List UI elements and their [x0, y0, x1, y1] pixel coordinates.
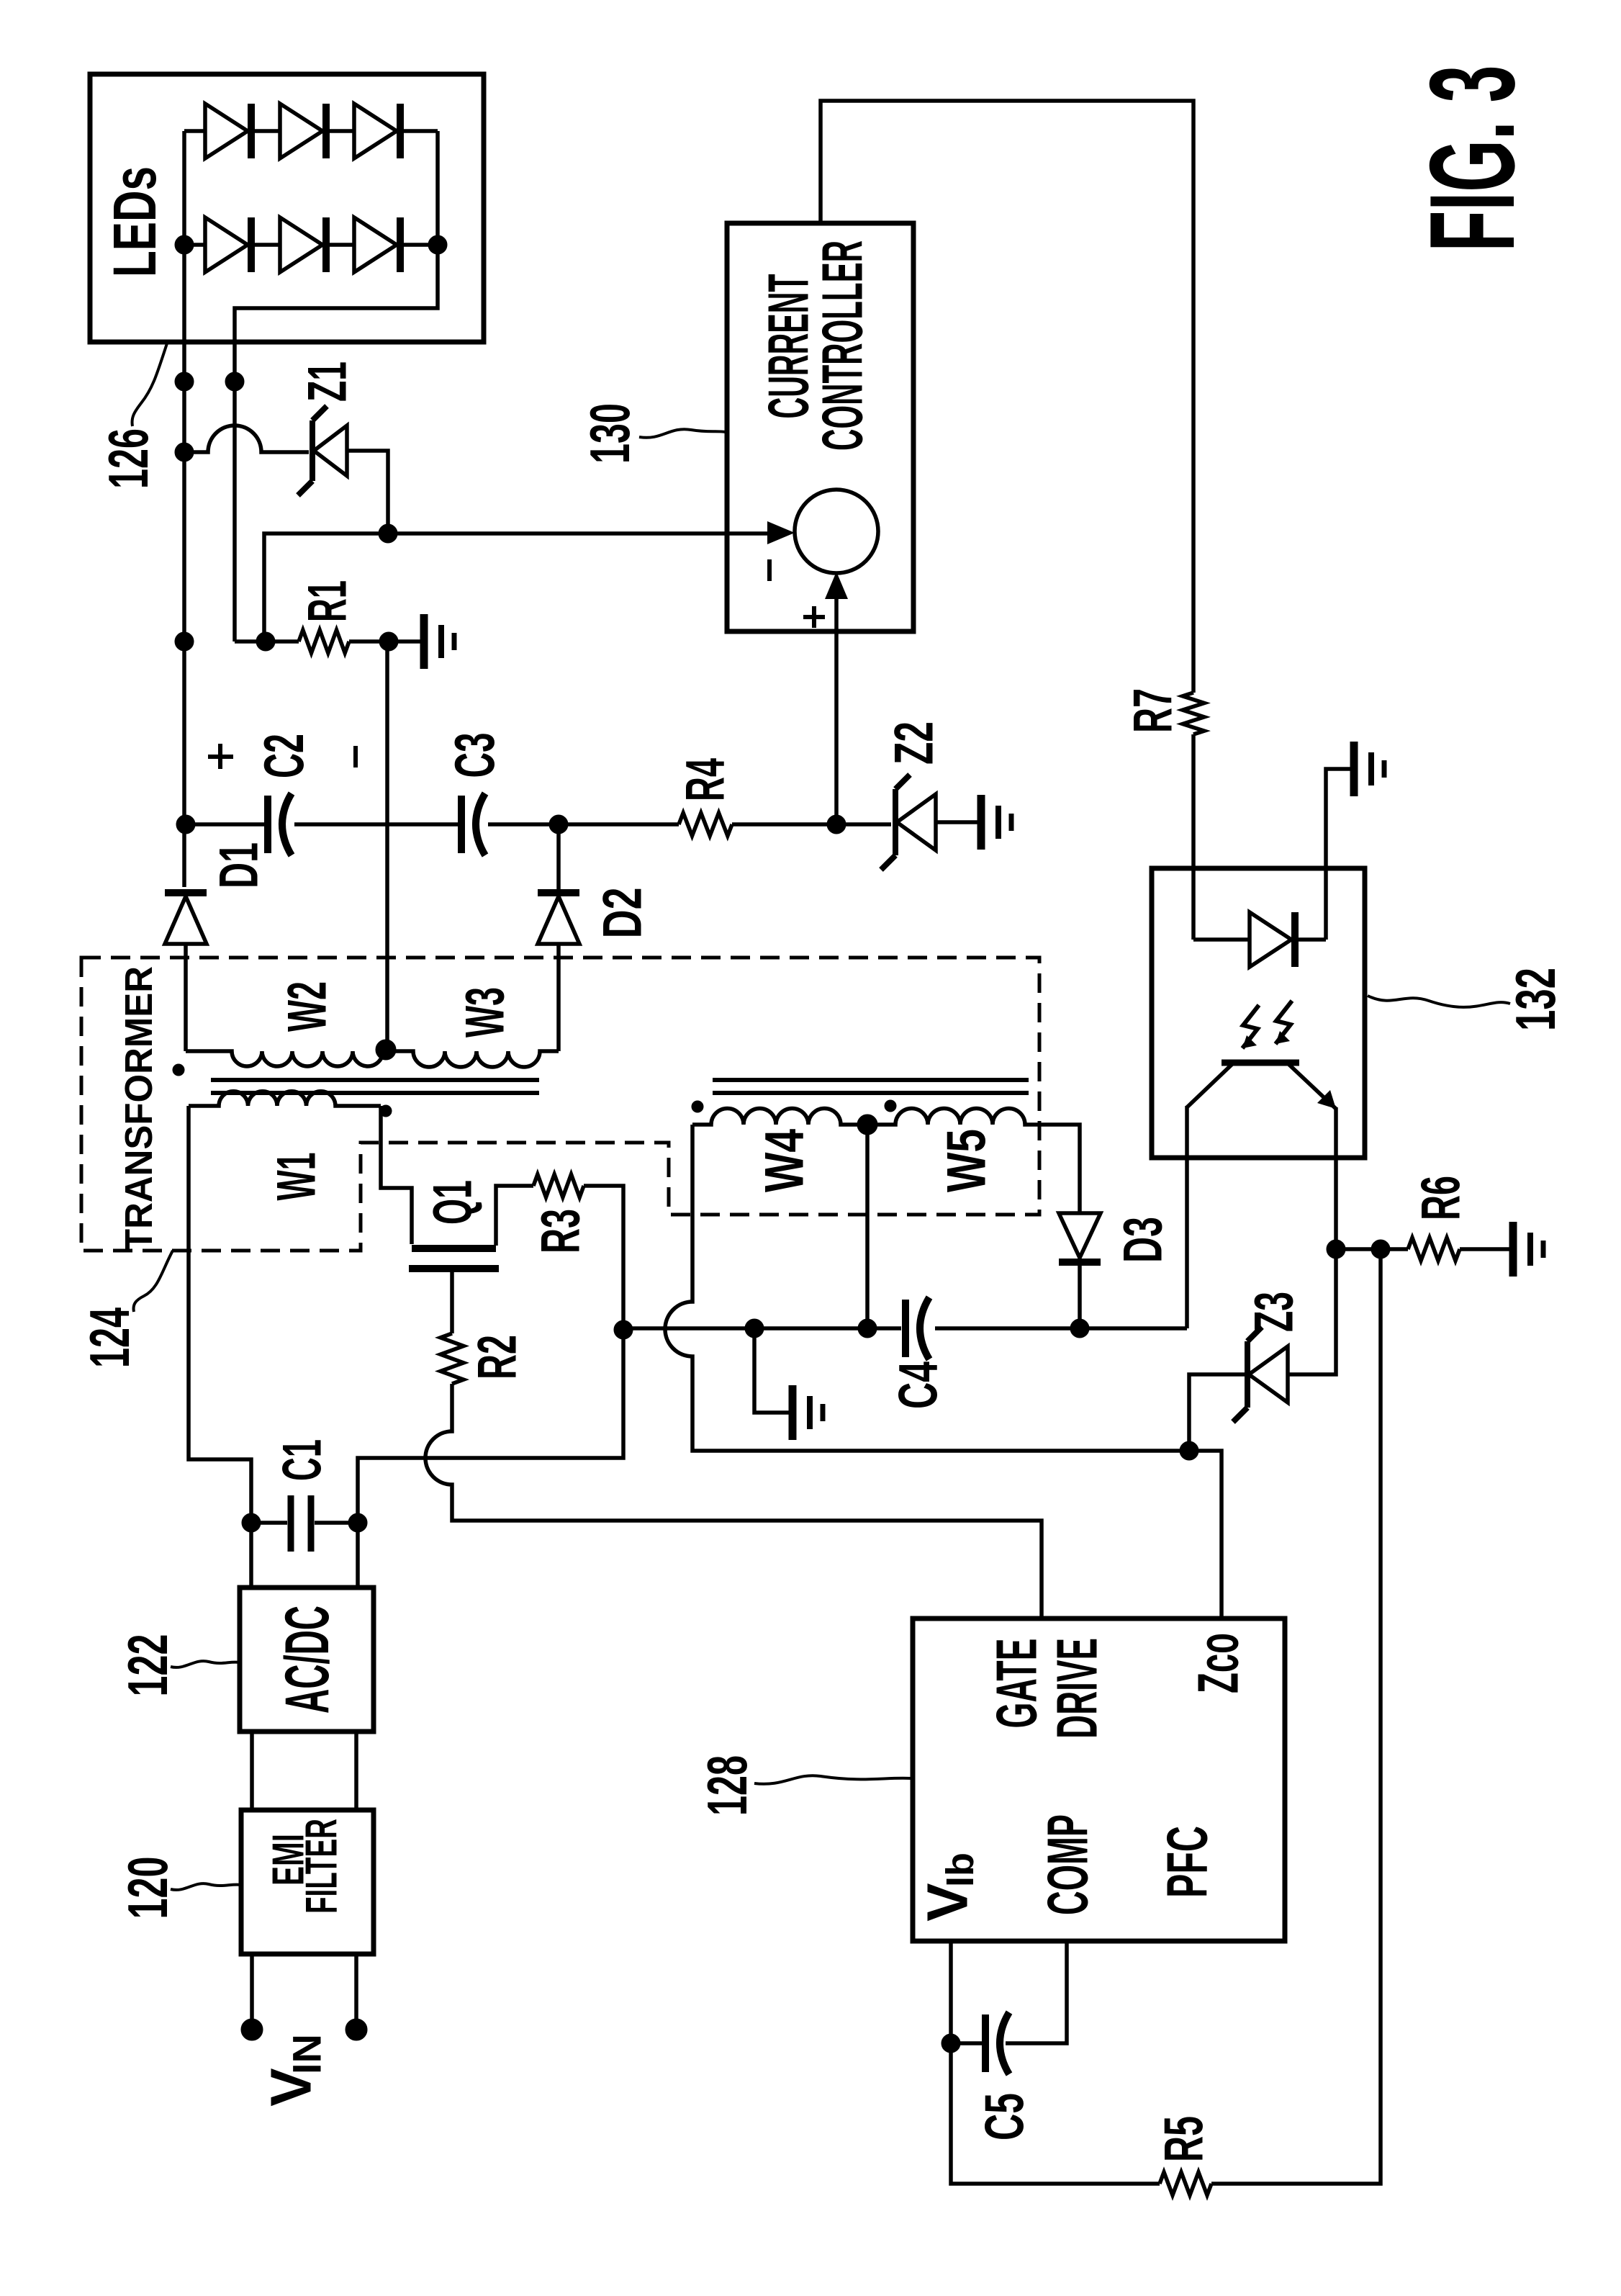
wire: C1 to AC/DC: [251, 1523, 358, 1588]
label TRANSFORMER: [117, 966, 161, 1251]
label R5: [1154, 2116, 1215, 2162]
label C4: [888, 1361, 949, 1409]
svg-text:COMP: COMP: [1036, 1814, 1100, 1915]
label Z3: [1244, 1292, 1305, 1332]
svg-text:C2: C2: [252, 734, 315, 778]
wire: C2 to C3: [294, 822, 458, 827]
svg-text:R5: R5: [1154, 2116, 1215, 2162]
svg-text:122: 122: [116, 1634, 179, 1697]
label R3: [530, 1209, 592, 1253]
wire: C1 leads: [251, 1521, 358, 1525]
LED diode D-B1: [205, 217, 251, 272]
junction R4/Z2/plus-input: [827, 815, 846, 834]
svg-text:R2: R2: [467, 1335, 528, 1379]
svg-text:132: 132: [1504, 968, 1567, 1031]
resistor R3: [533, 1174, 584, 1197]
wire: R2 lead hops sense wire, to gate-drive line: [425, 1384, 1042, 1619]
VIN terminal left: [241, 2019, 263, 2040]
opto phototransistor: [1187, 1063, 1336, 1109]
svg-text:R6: R6: [1411, 1176, 1472, 1220]
svg-text:Q1: Q1: [423, 1180, 484, 1225]
svg-text:IN: IN: [284, 2034, 330, 2074]
capacitor C4: [906, 1297, 929, 1359]
resistor R2: [441, 1333, 464, 1384]
label 122: [116, 1634, 179, 1697]
junction R1 right: [379, 632, 398, 651]
label Q1: [423, 1180, 484, 1225]
junction W2/W3 tap: [376, 1040, 396, 1060]
phase dot W4: [692, 1101, 703, 1112]
wire: C5 leads: [951, 1941, 1067, 2043]
winding W5: [867, 1109, 1026, 1125]
junction C4 ground stub: [745, 1319, 764, 1338]
svg-text:FILTER: FILTER: [297, 1819, 347, 1914]
wire: Z1 anode branch with hop over right rail: [184, 426, 309, 452]
svg-text:W3: W3: [455, 987, 516, 1037]
wire: Z2 to ground: [936, 820, 979, 824]
label Z2: [884, 721, 945, 765]
svg-text:128: 128: [695, 1755, 759, 1816]
junction at LED bottom row left: [175, 235, 194, 254]
minus input arrowhead: [767, 521, 795, 544]
label W4: [754, 1129, 816, 1192]
label minus input: [767, 559, 772, 581]
junction at Z1 branch: [175, 443, 194, 462]
svg-text:PFC: PFC: [1155, 1826, 1219, 1898]
junction on left rail at R1 level: [175, 632, 194, 651]
svg-text:DRIVE: DRIVE: [1045, 1638, 1109, 1739]
svg-text:FIG. 3: FIG. 3: [1404, 66, 1540, 252]
label 120: [116, 1857, 179, 1919]
LED diode D-B2: [280, 217, 326, 272]
wire: rail to C2: [186, 822, 264, 827]
wire: opto collector down to aux node: [1185, 1106, 1189, 1328]
svg-text:V: V: [916, 1883, 980, 1921]
wire: EMI FILTER to VIN terminals: [252, 1954, 356, 2030]
gate drive box 128: [913, 1619, 1285, 1941]
svg-text:C5: C5: [975, 2093, 1036, 2140]
plus input arrowhead: [825, 572, 848, 599]
label 124: [78, 1307, 141, 1368]
svg-text:C4: C4: [888, 1361, 949, 1409]
label C5: [975, 2093, 1036, 2140]
wire: aux rail: [623, 1326, 1187, 1331]
label +: [208, 744, 233, 769]
wire: Q1 source to R3: [496, 1186, 533, 1246]
LED diode D-B3: [354, 217, 400, 272]
summing circle: [795, 490, 878, 573]
label 120 leader: [171, 1883, 241, 1890]
svg-text:126: 126: [96, 428, 160, 489]
wire: D2 anode down to W3: [556, 944, 561, 1051]
svg-text:Z2: Z2: [884, 721, 945, 765]
label W5: [936, 1129, 998, 1192]
svg-text:GATE: GATE: [985, 1639, 1049, 1729]
label 130 leader: [639, 429, 726, 438]
label Vlb: [916, 1852, 983, 1922]
label R1: [297, 580, 358, 622]
wire: R7 to optocoupler LED: [1191, 734, 1196, 940]
label VIN: [259, 2034, 330, 2107]
wire: D2 cathode up to rail: [556, 824, 561, 889]
junction R6 node A: [1327, 1240, 1345, 1259]
svg-text:W4: W4: [754, 1129, 816, 1192]
wire: Z3 anode lead: [1189, 1374, 1247, 1451]
label 122 leader: [171, 1661, 240, 1667]
junction R6 node B: [1371, 1240, 1390, 1259]
wire: Z3 cathode up to R6 node: [1288, 1249, 1336, 1374]
wire: R3 to source node: [584, 1186, 623, 1328]
wire: R6 node: [1336, 1247, 1511, 1251]
wire: LED right vertical and return: [235, 131, 438, 641]
capacitor C3: [461, 793, 485, 855]
opto light arrows: [1242, 1001, 1292, 1048]
junction C5 left: [942, 2034, 960, 2053]
figure title FIG. 3: [1404, 66, 1540, 252]
svg-text:W1: W1: [266, 1153, 328, 1201]
capacitor C5: [985, 2012, 1009, 2074]
label 132 leader: [1368, 996, 1510, 1007]
wire: R1 to ground: [349, 639, 422, 644]
wire: plus input from R4/Z2 node: [834, 595, 839, 822]
current controller box 130: [727, 223, 913, 631]
label W2: [277, 981, 338, 1032]
phase dot W5: [885, 1100, 896, 1112]
junction at LED bottom row right: [428, 235, 447, 254]
svg-text:CONTROLLER: CONTROLLER: [810, 240, 875, 451]
diode D1: [165, 893, 207, 944]
ground at opto LED: [1354, 742, 1384, 796]
junction Zco node: [1180, 1441, 1198, 1460]
label 128 leader: [754, 1775, 911, 1784]
svg-text:124: 124: [78, 1307, 141, 1368]
junction Z1/controller-minus node: [379, 524, 397, 543]
wire: opto emitter down to R6 node: [1334, 1107, 1338, 1249]
label R4: [675, 758, 736, 801]
wire: W1 to Q1 drain: [381, 1106, 412, 1244]
svg-text:Z3: Z3: [1244, 1292, 1305, 1332]
svg-text:130: 130: [578, 403, 641, 464]
svg-text:D1: D1: [209, 842, 270, 888]
resistor R1: [299, 630, 349, 653]
wire: ground stub: [754, 1328, 790, 1413]
wire: R5 to C5/Vlb: [951, 1941, 1160, 2184]
ground at Z2: [981, 795, 1011, 850]
label minus: [353, 746, 358, 767]
wire: LED cathode rail down (left): [182, 245, 186, 887]
svg-text:D2: D2: [592, 888, 654, 939]
resistor R4: [679, 813, 732, 836]
label W3: [455, 987, 516, 1037]
wire: sense line down to W2/W3 tap: [385, 641, 389, 1049]
label AC/DC: [273, 1606, 342, 1714]
phase dot W1: [380, 1105, 392, 1117]
svg-text:AC/DC: AC/DC: [273, 1606, 342, 1714]
junction below box on left rail: [175, 372, 194, 391]
label C2: [252, 734, 315, 778]
label W1: [266, 1153, 328, 1201]
label LEDs: [101, 166, 168, 277]
AC/DC block 122: [240, 1588, 374, 1732]
svg-text:Zco: Zco: [1186, 1633, 1250, 1693]
label 126: [96, 428, 160, 489]
svg-text:R1: R1: [297, 580, 358, 622]
transformer dashed outline 124: [81, 958, 1039, 1251]
junction W4/W5 tap to aux rail: [858, 1319, 877, 1338]
junction below box on right rail: [225, 372, 244, 391]
label C3: [443, 733, 506, 778]
core lines primary: [211, 1080, 539, 1093]
wire: LED left vertical: [182, 131, 186, 245]
VIN terminal right: [346, 2019, 367, 2040]
ground at R6: [1513, 1222, 1543, 1277]
junction W4/W5 tap: [857, 1115, 877, 1135]
label GATE DRIVE: [985, 1638, 1109, 1739]
wire: LED chain top row: [184, 129, 438, 133]
diode D3: [1059, 1213, 1101, 1262]
winding W3: [386, 1051, 559, 1067]
LED diode D-A3: [354, 104, 400, 158]
wire: minus input: [388, 531, 772, 536]
wire: Zco pin: [1189, 1451, 1222, 1619]
wire: W4 left lead with hop: [665, 1125, 1189, 1451]
wire: LED chain bottom row: [184, 243, 438, 247]
label COMP: [1036, 1814, 1100, 1915]
svg-text:D3: D3: [1113, 1217, 1174, 1263]
svg-text:Ib: Ib: [939, 1852, 982, 1887]
resistor R5: [1160, 2172, 1211, 2195]
junction D3 cathode: [1070, 1319, 1089, 1338]
wire: W1 left lead down to C1: [189, 1106, 251, 1523]
junction C3/D2: [549, 815, 568, 834]
label D3: [1113, 1217, 1174, 1263]
label CURRENT CONTROLLER: [757, 240, 875, 451]
transistor Q1 MOSFET: [409, 1248, 499, 1269]
svg-text:W2: W2: [277, 981, 338, 1032]
svg-text:W5: W5: [936, 1129, 998, 1192]
label EMI FILTER: [264, 1819, 347, 1914]
label R6: [1411, 1176, 1472, 1220]
svg-text:120: 120: [116, 1857, 179, 1919]
wire: controller output to R7: [821, 101, 1193, 693]
wire: source node down and left to C1 plus: [358, 1328, 623, 1523]
wire: R5 feedback line: [1211, 1249, 1381, 2184]
label 132: [1504, 968, 1567, 1031]
wire: W5 to D3: [1026, 1125, 1080, 1213]
wire: Q1 gate through R2: [450, 1272, 454, 1333]
junction source node: [614, 1320, 633, 1339]
svg-text:R3: R3: [530, 1209, 592, 1253]
svg-text:R4: R4: [675, 758, 736, 801]
zener Z1: [298, 406, 347, 495]
winding W2: [186, 1051, 383, 1066]
capacitor C2: [268, 793, 292, 855]
label R2: [467, 1335, 528, 1379]
wire: D3 to aux rail: [1078, 1265, 1082, 1328]
winding W4: [692, 1109, 867, 1125]
phase dot W2: [173, 1064, 184, 1076]
svg-text:R7: R7: [1123, 688, 1184, 733]
wire: Z1 cathode to minus-input node: [347, 451, 388, 534]
resistor R7: [1183, 693, 1204, 734]
opto LED wire: [1193, 769, 1352, 940]
capacitor C1: [291, 1495, 311, 1552]
label 128: [695, 1755, 759, 1816]
label plus input: [803, 606, 825, 628]
label D2: [592, 888, 654, 939]
opto LED diode: [1250, 912, 1295, 967]
svg-text:Z1: Z1: [297, 361, 358, 402]
core lines auxiliary: [713, 1080, 1029, 1093]
junction at R1 left: [256, 632, 275, 651]
svg-text:C3: C3: [443, 733, 506, 778]
zener Z3: [1233, 1327, 1288, 1422]
LED diode D-A1: [205, 104, 251, 158]
LED diode D-A2: [280, 104, 326, 158]
wire: C3 to R4: [488, 822, 679, 827]
wire: R1 left lead: [235, 639, 299, 644]
wire: AC/DC to EMI FILTER: [252, 1732, 356, 1810]
ground at aux: [793, 1385, 823, 1440]
wire: center tap down: [865, 1125, 870, 1328]
svg-text:LEDs: LEDs: [101, 166, 168, 277]
label R7: [1123, 688, 1184, 733]
junction C1 right: [348, 1513, 367, 1532]
label 124 leader: [134, 1251, 173, 1312]
junction C1 left: [242, 1513, 261, 1532]
ground at R1: [424, 614, 454, 669]
label PFC: [1155, 1826, 1219, 1898]
label 130: [578, 403, 641, 464]
LED array box 126: [90, 74, 484, 342]
junction left rail / C2: [176, 815, 195, 834]
wire: R4 to Z2: [732, 822, 891, 827]
EMI FILTER block 120: [241, 1810, 374, 1954]
resistor R6: [1408, 1238, 1460, 1261]
label 126 leader: [132, 343, 168, 426]
diode D2: [538, 893, 579, 944]
wire: node down to R1: [264, 534, 388, 641]
label Z1: [297, 361, 358, 402]
svg-text:C1: C1: [272, 1439, 333, 1481]
optocoupler box 132: [1152, 868, 1365, 1158]
zener Z2: [881, 775, 936, 870]
svg-text:TRANSFORMER: TRANSFORMER: [117, 966, 161, 1251]
label D1: [209, 842, 270, 888]
label C1: [272, 1439, 333, 1481]
label Zco: [1186, 1633, 1250, 1693]
wire: D1 anode to W2: [184, 944, 188, 1051]
winding W1: [189, 1091, 381, 1106]
